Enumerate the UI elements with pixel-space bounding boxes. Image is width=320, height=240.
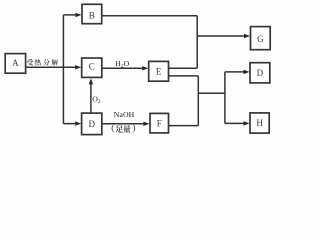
svg-text:C: C — [89, 61, 95, 71]
svg-text:H2O: H2O — [115, 59, 129, 70]
svg-text:F: F — [157, 118, 162, 128]
svg-text:G: G — [257, 34, 264, 44]
svg-text:E: E — [156, 67, 162, 77]
svg-text:D: D — [88, 119, 95, 129]
svg-text:B: B — [89, 10, 95, 20]
svg-text:D: D — [257, 68, 264, 78]
svg-text:H: H — [256, 118, 263, 128]
svg-text:NaOH: NaOH — [114, 110, 135, 119]
svg-text:A: A — [12, 58, 19, 68]
svg-text:O2: O2 — [92, 95, 101, 106]
